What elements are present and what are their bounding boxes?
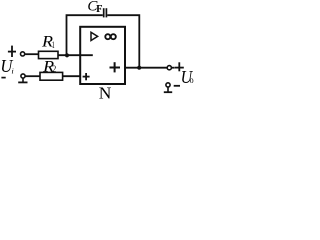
svg-text:F: F bbox=[96, 4, 102, 15]
svg-text:o: o bbox=[190, 75, 194, 85]
svg-text:N: N bbox=[99, 83, 112, 99]
svg-text:1: 1 bbox=[52, 40, 55, 50]
svg-text:2: 2 bbox=[52, 64, 56, 74]
svg-text:i: i bbox=[11, 67, 13, 76]
